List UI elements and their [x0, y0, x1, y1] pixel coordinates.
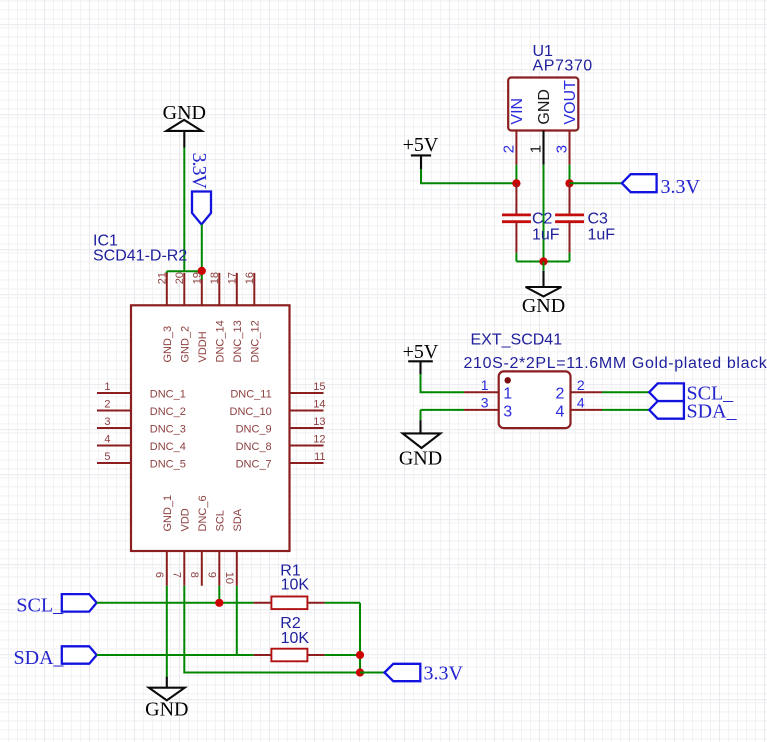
- svg-text:3.3V: 3.3V: [661, 176, 701, 198]
- pin 10 of IC1: [236, 551, 238, 586]
- svg-text:GND_2: GND_2: [180, 326, 192, 363]
- wire SCL net (IC1 pin 9 down): [218, 586, 220, 603]
- junction (R2 to 3.3V rail): [356, 651, 364, 659]
- net flag SCL_ (left): [16, 594, 96, 617]
- svg-text:1: 1: [503, 386, 512, 403]
- wire VDD/3.3V net (IC1 pin 7 down and right): [184, 586, 360, 673]
- svg-text:DNC_12: DNC_12: [250, 320, 262, 362]
- pin 3 of IC1: [97, 427, 131, 429]
- junction (VIN / C2): [512, 179, 520, 187]
- svg-text:2: 2: [104, 399, 110, 411]
- IC IC1 body: [131, 305, 290, 551]
- pin 12 of IC1: [290, 445, 324, 447]
- wire SCL net (flag to R1): [97, 602, 254, 604]
- svg-text:C2: C2: [532, 210, 553, 227]
- wire 3.3V net (VOUT to flag): [570, 182, 622, 184]
- capacitor C2 top lead: [515, 183, 517, 214]
- capacitor C3 plates: [555, 215, 584, 222]
- resistor R1 leads: [254, 602, 325, 604]
- wire SCL_ net (pin 2 to flag): [602, 391, 649, 393]
- pin 2 of U1: [515, 131, 517, 165]
- pin 5 of IC1: [97, 462, 131, 464]
- svg-text:14: 14: [313, 399, 325, 411]
- wire +5V net (to U1 VIN): [421, 169, 516, 183]
- svg-text:21: 21: [157, 272, 169, 284]
- svg-text:DNC_2: DNC_2: [150, 406, 186, 418]
- pin 6 of IC1: [166, 551, 168, 586]
- regulator U1 body: [508, 78, 578, 131]
- power +5V (top): [403, 134, 439, 169]
- svg-text:5: 5: [104, 451, 110, 463]
- wire GND net (EXT pin 3 to ground): [421, 410, 465, 420]
- svg-text:GND_1: GND_1: [162, 495, 174, 532]
- ground GND (middle): [399, 420, 442, 469]
- svg-text:2: 2: [500, 145, 517, 153]
- svg-text:SDA_: SDA_: [687, 400, 738, 422]
- pin 7 of IC1: [183, 551, 185, 586]
- pin 1 of U1 (GND, black): [542, 131, 544, 165]
- svg-text:VDDH: VDDH: [197, 331, 209, 362]
- pin 11 of IC1: [290, 462, 324, 464]
- svg-text:DNC_7: DNC_7: [236, 459, 272, 471]
- svg-text:DNC_14: DNC_14: [215, 320, 227, 362]
- svg-text:1uF: 1uF: [588, 227, 616, 244]
- svg-text:3: 3: [503, 403, 512, 420]
- capacitor C3 bottom lead: [569, 223, 571, 253]
- svg-text:2: 2: [555, 386, 564, 403]
- svg-text:4: 4: [104, 434, 110, 446]
- svg-text:10K: 10K: [281, 577, 310, 594]
- pin 2 of IC1: [97, 410, 131, 412]
- wire 3.3V net (to bottom flag): [360, 672, 385, 674]
- resistor R2 body: [271, 649, 307, 662]
- net flag SDA_ (left): [14, 646, 97, 669]
- wire C3 bottom to GND rail: [569, 253, 571, 262]
- svg-text:C3: C3: [588, 210, 609, 227]
- wire VIN pin to junction: [515, 165, 517, 184]
- junction (SCL at pin 9): [215, 599, 223, 607]
- pin 8 of IC1: [201, 551, 203, 586]
- svg-text:6: 6: [153, 572, 165, 578]
- wire GND net (U1 pin 1 down): [543, 165, 545, 262]
- svg-text:1: 1: [528, 145, 545, 153]
- wire 3.3V net (vertical pull-up rail): [359, 603, 361, 673]
- svg-text:1: 1: [481, 377, 489, 393]
- wire SDA_ net (pin 4 to flag): [602, 409, 649, 411]
- svg-text:VIN: VIN: [509, 98, 526, 125]
- svg-text:DNC_6: DNC_6: [197, 495, 209, 531]
- svg-text:19: 19: [192, 272, 204, 284]
- svg-text:4: 4: [555, 403, 564, 420]
- pin 17 of IC1: [236, 273, 238, 305]
- svg-text:12: 12: [313, 434, 325, 446]
- svg-text:4: 4: [577, 394, 585, 410]
- svg-text:DNC_9: DNC_9: [236, 424, 272, 436]
- pin 4 lead of EXT_SCD41: [571, 409, 603, 411]
- pin 18 of IC1: [218, 273, 220, 305]
- pin 1 lead of EXT_SCD41: [464, 391, 499, 393]
- svg-text:DNC_8: DNC_8: [236, 441, 272, 453]
- svg-text:DNC_13: DNC_13: [232, 320, 244, 362]
- resistor R1 body: [271, 597, 307, 610]
- svg-text:DNC_10: DNC_10: [230, 406, 272, 418]
- svg-text:10K: 10K: [281, 630, 310, 647]
- svg-text:18: 18: [209, 272, 221, 284]
- pin 1 marker dot: [505, 377, 511, 383]
- svg-text:AP7370: AP7370: [533, 58, 593, 75]
- net flag 3.3V (vertical, above IC1 pin 19): [188, 153, 211, 225]
- capacitor C3 top lead: [569, 183, 571, 214]
- svg-text:3: 3: [554, 145, 571, 153]
- svg-text:GND: GND: [536, 89, 553, 125]
- net flag 3.3V (top right): [622, 174, 701, 198]
- junction (GND rail): [539, 257, 547, 265]
- svg-text:DNC_4: DNC_4: [150, 441, 186, 453]
- ground GND (below C2/C3): [522, 262, 565, 317]
- svg-text:DNC_5: DNC_5: [150, 459, 186, 471]
- svg-text:DNC_11: DNC_11: [230, 389, 271, 401]
- svg-text:3.3V: 3.3V: [188, 153, 210, 190]
- svg-text:+5V: +5V: [403, 341, 439, 363]
- resistor R2 leads: [254, 654, 325, 656]
- svg-text:210S-2*2PL=11.6MM Gold-plated: 210S-2*2PL=11.6MM Gold-plated black: [464, 355, 767, 372]
- svg-text:1: 1: [104, 381, 110, 393]
- wire +5V net (to EXT pin 1): [421, 374, 465, 392]
- svg-text:3: 3: [481, 394, 489, 410]
- svg-text:SDA_: SDA_: [14, 647, 65, 669]
- svg-text:VOUT: VOUT: [562, 80, 579, 125]
- pin 15 of IC1: [290, 392, 324, 394]
- pin 21 of IC1: [166, 273, 168, 305]
- svg-text:DNC_1: DNC_1: [150, 389, 186, 401]
- svg-text:VDD: VDD: [180, 508, 192, 531]
- wire SDA net (IC1 pin 10 down): [236, 586, 238, 655]
- pin 9 of IC1: [218, 551, 220, 586]
- svg-text:GND: GND: [399, 447, 442, 469]
- svg-text:GND: GND: [522, 295, 565, 317]
- svg-text:13: 13: [313, 416, 325, 428]
- svg-text:GND: GND: [145, 698, 188, 720]
- svg-text:10: 10: [223, 572, 235, 584]
- svg-text:DNC_3: DNC_3: [150, 424, 186, 436]
- pin 20 of IC1: [183, 273, 185, 305]
- junction (3.3V at IC1 pin 19): [198, 267, 206, 275]
- svg-text:7: 7: [171, 572, 183, 578]
- svg-text:GND_3: GND_3: [162, 326, 174, 363]
- connector EXT_SCD41 body: [499, 371, 571, 428]
- svg-text:+5V: +5V: [403, 134, 439, 156]
- wire GND rail under caps: [516, 261, 569, 263]
- pin 3 lead of EXT_SCD41: [464, 409, 499, 411]
- wire SCL net (R1 right to vertical): [325, 602, 360, 604]
- wire 3.3V net (flag to IC1 pin 19): [201, 225, 203, 281]
- ground GND (bottom, below IC1): [145, 677, 188, 721]
- net flag SDA_ (right): [649, 400, 737, 422]
- svg-text:8: 8: [188, 572, 200, 578]
- svg-text:9: 9: [206, 572, 218, 578]
- pin 16 of IC1: [253, 273, 255, 305]
- svg-text:SDA: SDA: [232, 508, 244, 531]
- svg-text:3: 3: [104, 416, 110, 428]
- wire GND net (IC1 pin 6 down to ground): [166, 586, 168, 677]
- pin 3 of U1: [569, 131, 571, 165]
- pin 2 lead of EXT_SCD41: [571, 391, 603, 393]
- capacitor C2 plates: [502, 215, 531, 222]
- wire C2 bottom to GND rail: [515, 253, 517, 262]
- capacitor C2 bottom lead: [515, 223, 517, 253]
- pin 13 of IC1: [290, 427, 324, 429]
- svg-text:SCL_: SCL_: [16, 595, 64, 617]
- wire GND net (vertical from top ground symbol to IC1 pin 20): [183, 148, 185, 272]
- svg-text:EXT_SCD41: EXT_SCD41: [471, 332, 563, 349]
- wire SDA net (flag to R2): [97, 654, 254, 656]
- pin 19 of IC1: [201, 280, 203, 306]
- ground GND (top, above IC1): [163, 102, 206, 148]
- power +5V (middle): [403, 341, 439, 374]
- wire VOUT pin to junction: [569, 165, 571, 184]
- junction (rail to 3.3V flag): [356, 668, 364, 676]
- svg-text:15: 15: [313, 381, 325, 393]
- svg-text:2: 2: [577, 377, 585, 393]
- svg-text:SCD41-D-R2: SCD41-D-R2: [93, 248, 187, 265]
- svg-text:SCL: SCL: [215, 510, 227, 531]
- svg-text:17: 17: [227, 272, 239, 284]
- wire GND net (horizontal joining pins 21,20,19): [167, 271, 202, 274]
- svg-text:16: 16: [244, 272, 256, 284]
- junction (VOUT / C3): [565, 179, 573, 187]
- svg-text:3.3V: 3.3V: [424, 662, 464, 684]
- pin 4 of IC1: [97, 445, 131, 447]
- svg-text:1uF: 1uF: [532, 227, 560, 244]
- pin 1 of IC1: [97, 392, 131, 394]
- svg-text:11: 11: [314, 451, 325, 463]
- net flag 3.3V (bottom): [385, 662, 464, 684]
- net flag SCL_ (right): [649, 383, 734, 405]
- svg-text:20: 20: [174, 272, 186, 284]
- wire SDA net (R2 right to vertical): [325, 654, 360, 656]
- pin 14 of IC1: [290, 410, 324, 412]
